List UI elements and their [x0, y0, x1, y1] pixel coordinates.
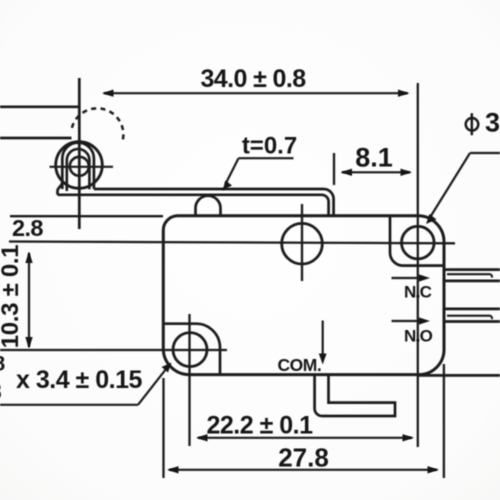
node vertical centerline top-right hole — [417, 83, 419, 447]
node roller horizontal centerline — [50, 166, 114, 168]
arrowhead 8.1 right — [401, 169, 413, 176]
node roller axis vertical centerline — [78, 78, 81, 229]
boss around bottom-left mounting hole — [163, 324, 220, 375]
svg-text:N.C: N.C — [404, 282, 432, 301]
lever top edge with bend at right end — [94, 189, 334, 216]
arrowhead 27.8 right — [428, 466, 440, 473]
dashed rotated-roller arc — [72, 108, 123, 141]
svg-text:N.O: N.O — [404, 327, 433, 346]
svg-text:COM.: COM. — [278, 355, 322, 375]
svg-text:10.3 ± 0.1: 10.3 ± 0.1 — [0, 245, 24, 349]
arrowhead 10.3 top — [25, 252, 32, 264]
roller fork outer arch — [62, 143, 94, 189]
svg-text:22.2 ± 0.1: 22.2 ± 0.1 — [206, 412, 313, 440]
dimension 27.8 left extension — [162, 378, 164, 478]
arrowhead 10.3 bottom — [25, 337, 32, 349]
body bottom edge extension to right image edge — [419, 374, 500, 377]
roller inner hub circle — [70, 157, 89, 176]
leader t=0.7 underline — [239, 157, 294, 159]
lever left bracket foot — [58, 182, 63, 195]
mounting hole top-right — [402, 226, 435, 259]
COM down arrow line — [322, 321, 324, 358]
mounting hole bottom-left — [173, 333, 207, 367]
N.C arrow line — [392, 277, 424, 279]
arrowhead t=0.7 leader — [223, 181, 233, 191]
leader 3.4 underline — [0, 404, 138, 406]
roller outer circle — [56, 142, 103, 189]
dimension 8.1 line — [342, 171, 410, 173]
svg-text:2.8: 2.8 — [12, 215, 43, 241]
terminal N.O top edge — [444, 308, 500, 311]
switch body outline — [163, 216, 444, 375]
boss step inside top-right corner — [390, 216, 444, 266]
terminal N.O slot line — [447, 316, 492, 319]
plunger dome under lever — [196, 196, 221, 216]
dimension 8.1 left extension — [333, 153, 335, 185]
svg-text:x 3.4 ± 0.15: x 3.4 ± 0.15 — [16, 366, 142, 394]
svg-text:8.1: 8.1 — [355, 143, 393, 173]
node horizontal centerline bottom-left hole — [0, 349, 227, 351]
svg-text:3: 3 — [0, 379, 2, 404]
plunger pin hole top-center — [282, 223, 323, 264]
leader phi3.2 diagonal — [429, 153, 470, 219]
dimension 34.0 line — [104, 92, 408, 94]
terminal N.O bottom edge — [444, 320, 500, 323]
arrowhead 22.2 left — [196, 434, 208, 441]
terminal N.C bottom edge — [444, 280, 500, 283]
svg-text:3.2: 3.2 — [485, 107, 500, 137]
dimension 10.3 vertical line — [28, 253, 30, 347]
wire leader line lower-left to off-image — [0, 137, 72, 140]
arrowhead 22.2 right — [403, 434, 415, 441]
leader 3.4 diagonal — [138, 367, 168, 405]
leader phi3.2 underline — [470, 152, 500, 154]
svg-text:34.0 ± 0.8: 34.0 ± 0.8 — [200, 65, 306, 93]
wire leader line upper-left to off-image — [0, 105, 79, 108]
arrowhead 3.4 leader — [162, 363, 172, 373]
arrowhead 27.8 left — [167, 466, 179, 473]
leader t=0.7 diagonal — [226, 158, 239, 184]
roller fork inner arch — [67, 149, 90, 191]
arrowhead 34.0 right — [398, 90, 410, 97]
svg-text:27.8: 27.8 — [278, 443, 329, 473]
dimension 22.2 line — [198, 437, 412, 439]
svg-text:8: 8 — [0, 353, 6, 376]
terminal COM L-shape below body — [315, 376, 395, 417]
node vertical centerline bottom-left hole — [188, 314, 190, 446]
arrowhead COM down — [319, 354, 327, 365]
arrowhead 34.0 left — [102, 90, 114, 97]
arrowhead N.O right — [419, 317, 431, 324]
label phi symbol circle — [466, 118, 479, 131]
node horizontal centerline through holes — [9, 242, 455, 244]
lever bottom edge with inner bend — [58, 195, 329, 216]
dimension 27.8 right extension — [443, 364, 445, 478]
dimension 27.8 line — [169, 469, 437, 471]
terminal N.C top edge — [444, 268, 500, 271]
label phi symbol stem — [471, 113, 474, 135]
terminal N.C slot line — [447, 274, 492, 277]
arrowhead phi3.2 leader — [426, 214, 437, 224]
wire 2.8 upper extension line — [10, 215, 163, 217]
arrowhead 8.1 left — [341, 169, 353, 176]
N.O arrow line — [392, 320, 424, 322]
arrowhead N.C right — [419, 274, 431, 281]
node vertical centerline center hole — [301, 204, 303, 281]
svg-text:t=0.7: t=0.7 — [242, 133, 297, 160]
